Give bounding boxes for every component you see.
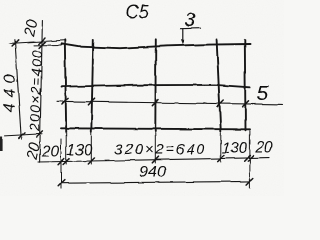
scan artifact left edge: [0, 137, 3, 152]
wire W3 bottom longitudinal bar: [61, 128, 250, 129]
svg-text:320×2=640: 320×2=640: [114, 141, 206, 158]
extension x221 bar B4: [220, 133, 222, 162]
overall dimension line 940: [61, 181, 250, 183]
tick chain x155: [152, 157, 158, 163]
tick chain x247: [244, 155, 250, 161]
svg-text:200×2=400: 200×2=400: [26, 49, 45, 132]
tick 940 left: [58, 180, 64, 186]
tick outer top: [12, 40, 18, 46]
tick on leader at B4: [218, 101, 224, 107]
bar B3 transverse: [154, 39, 157, 131]
tick chain x221: [218, 156, 224, 162]
bar B2 transverse: [91, 40, 93, 132]
svg-text:130: 130: [222, 140, 248, 157]
tick on leader at B1: [62, 98, 68, 104]
extension x155 bar B3: [154, 133, 156, 163]
wire W2 middle longitudinal bar: [61, 85, 250, 87]
svg-text:20: 20: [24, 141, 44, 162]
svg-text:440: 440: [1, 68, 19, 112]
bar B1 transverse: [65, 40, 66, 132]
tick 940 right: [247, 179, 253, 185]
extension x91 bar B2: [90, 133, 92, 164]
tick chain x66: [63, 158, 69, 164]
left inner dimension line 20/400/20: [40, 21, 43, 163]
tick inner top b: [39, 42, 45, 48]
bar B4 transverse: [217, 40, 221, 132]
bar B5 transverse: [244, 40, 247, 131]
svg-text:20: 20: [41, 144, 60, 161]
extension line top wire: [34, 44, 61, 46]
extension x61 wire left end: [60, 139, 62, 189]
svg-text:5: 5: [257, 82, 269, 105]
svg-text:940: 940: [139, 164, 166, 181]
tick chain x61: [58, 159, 64, 165]
svg-text:130: 130: [67, 142, 93, 159]
tick inner top a: [39, 38, 45, 44]
wire W1 top longitudinal bar: [61, 44, 250, 48]
tick chain x91: [88, 158, 94, 164]
tick on leader at B2: [88, 99, 94, 105]
svg-text:С5: С5: [126, 2, 150, 22]
svg-text:20: 20: [21, 18, 41, 39]
tick on leader at B5: [242, 101, 248, 107]
tick inner bottom: [37, 131, 43, 137]
extension x250 wire right end: [249, 131, 251, 188]
svg-text:20: 20: [254, 139, 273, 156]
tick on leader at B3: [152, 100, 158, 106]
tick chain x251: [248, 155, 254, 161]
callout position 5 leader: [57, 101, 283, 104]
tick outer bottom: [18, 132, 24, 138]
extension line top bar ends: [10, 40, 64, 43]
left outer dimension line 440: [15, 39, 21, 139]
extension x66 bar B1: [65, 133, 67, 164]
callout position 3: [181, 11, 201, 45]
bottom chain dimension line: [38, 158, 269, 162]
extension line bottom bar ends: [5, 134, 43, 136]
